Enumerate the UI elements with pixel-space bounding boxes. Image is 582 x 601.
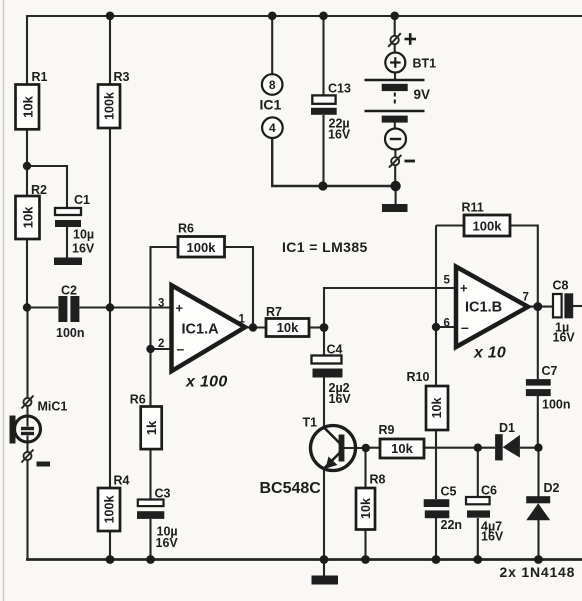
svg-text:x 100: x 100 (185, 374, 228, 391)
wire node A to C1 (27, 166, 67, 208)
svg-text:16V: 16V (328, 128, 351, 142)
resistor R11 (464, 215, 510, 236)
junction C2 node left (23, 303, 31, 311)
wire R9 node to R9 (366, 447, 380, 449)
wire R10 to C5 crossing R9 line (435, 430, 437, 499)
wire IC1 pin8 drop from rail (271, 16, 273, 75)
svg-text:–: – (177, 341, 185, 357)
svg-text:IC1: IC1 (260, 97, 282, 113)
wire ground stub below rail (323, 559, 325, 576)
svg-text:BT1: BT1 (413, 57, 437, 71)
wire C6 to bottom rail (477, 518, 479, 559)
junction bottom rail / R4 (106, 555, 115, 564)
capacitor C8 electrolytic (553, 294, 562, 317)
diode D1 (495, 434, 503, 460)
wire C2 node to C2 (27, 306, 58, 308)
svg-text:R4: R4 (114, 474, 130, 488)
svg-text:10µ: 10µ (73, 228, 94, 242)
capacitor C7 (526, 379, 551, 386)
ground bar below battery (382, 204, 408, 212)
wire C4 to T1 collector (323, 378, 325, 428)
IC1 power pin 4 circle (262, 117, 283, 138)
svg-text:C2: C2 (61, 284, 77, 298)
wire R2 top (26, 166, 28, 196)
svg-text:IC1 = LM385: IC1 = LM385 (282, 239, 368, 255)
wire R3 drop from rail (109, 16, 111, 85)
svg-text:16V: 16V (72, 242, 95, 256)
svg-text:8: 8 (269, 78, 276, 92)
wire IC1.A output to R7 (245, 326, 266, 328)
wire battery drop from rail (394, 16, 396, 36)
wire C2 node to MIC1 (26, 308, 28, 399)
svg-text:IC1.B: IC1.B (465, 300, 502, 316)
junction top rail / IC1 pin8 (268, 12, 277, 21)
svg-text:9V: 9V (414, 87, 431, 102)
svg-text:R2: R2 (31, 183, 47, 197)
svg-text:16V: 16V (553, 331, 576, 345)
svg-text:R3: R3 (114, 70, 130, 84)
wire battery connector to power return node (394, 166, 396, 187)
wire C4 node down to C4 (323, 328, 325, 356)
wire battery bottom plate to minus circle (394, 123, 396, 129)
junction D1 / C6 (474, 444, 482, 452)
ground bar below T1 emitter (312, 576, 339, 585)
wire D1 cathode side to output column (520, 447, 539, 449)
svg-text:+: + (176, 301, 184, 316)
svg-text:R8: R8 (370, 473, 386, 487)
capacitor C13 electrolytic (312, 95, 335, 103)
wire C8 to edge (573, 305, 582, 307)
junction power return / battery (390, 181, 400, 191)
wire C7 to D1 node (537, 396, 539, 448)
svg-text:R6: R6 (130, 393, 146, 407)
svg-text:1k: 1k (144, 420, 159, 435)
svg-text:MiC1: MiC1 (38, 400, 68, 414)
wire R2 bottom to C2 node (26, 239, 28, 308)
svg-text:2: 2 (158, 338, 164, 350)
junction T1 base / R8 / R9 (362, 444, 370, 452)
transistor Q T1 BC548C (311, 426, 356, 471)
svg-text:+: + (460, 281, 468, 296)
svg-text:–: – (461, 319, 469, 335)
wire R11 top left (436, 224, 464, 226)
wire output node down to C7 (537, 307, 539, 379)
resistor R1 (16, 85, 40, 130)
junction bottom rail / C3 (146, 555, 155, 564)
wire C2 junction down to R4 (109, 308, 111, 488)
battery BT1 plus connector (390, 36, 398, 44)
junction power return / C13 (318, 181, 327, 190)
junction IC1.A pin2 feedback (146, 345, 154, 353)
junction IC1.B pin6 / R10 / R11 (432, 323, 440, 331)
wire pin6 node down to R10 (435, 327, 437, 386)
junction top rail / C13 (319, 12, 328, 21)
wire R1 to node A (26, 129, 28, 166)
wire feedback left leg R6 100k (151, 247, 179, 349)
battery BT1 top long plate (365, 79, 425, 82)
svg-text:1: 1 (239, 314, 246, 326)
label battery minus (405, 160, 416, 163)
junction bottom rail / C5 (432, 555, 441, 564)
resistor R6 100k feedback (178, 237, 225, 258)
svg-text:R10: R10 (407, 370, 430, 384)
svg-text:C4: C4 (327, 343, 343, 357)
svg-text:4: 4 (269, 121, 276, 135)
wire R11 right leg to output node (510, 226, 538, 307)
svg-text:3: 3 (158, 298, 164, 310)
svg-text:C13: C13 (328, 82, 351, 96)
svg-text:R6: R6 (178, 222, 194, 236)
battery BT1 plus terminal circle (385, 53, 405, 73)
svg-text:D1: D1 (499, 421, 515, 435)
wire C4 node riser to IC1.B pin 5 (324, 288, 456, 328)
wire T1 base to R9 node (344, 447, 366, 449)
svg-text:10k: 10k (21, 206, 36, 228)
IC1 power pin 8 circle (262, 74, 283, 95)
diode D2 (526, 496, 550, 503)
ground bar below C1 (54, 258, 82, 266)
wire left chain drop from top rail (26, 15, 28, 85)
svg-text:7: 7 (523, 292, 529, 304)
svg-text:10k: 10k (391, 441, 413, 456)
wire minus circle to connector (394, 150, 396, 158)
svg-text:C8: C8 (553, 279, 569, 293)
svg-text:10k: 10k (359, 498, 373, 519)
wire pin2 node down to R6 1k (149, 349, 151, 407)
junction top rail / battery (390, 12, 399, 21)
svg-text:100n: 100n (542, 398, 571, 412)
svg-text:R11: R11 (462, 201, 484, 215)
wire bottom ground rail (26, 558, 582, 561)
junction C2 / R3 column (106, 303, 114, 311)
wire IC1.B pin 6 (436, 326, 456, 328)
wire MIC1 connector to body (26, 406, 28, 417)
wire D2 to bottom rail (537, 520, 539, 559)
wire BT1 plus circle to plate (394, 73, 396, 80)
battery BT1 bottom long plate (365, 110, 425, 113)
wire battery internal top (394, 45, 396, 53)
svg-text:R7: R7 (266, 305, 282, 319)
svg-text:6: 6 (444, 318, 450, 330)
wire IC1.A pin 2 (151, 348, 172, 350)
svg-text:10k: 10k (277, 320, 299, 335)
resistor R6 1k (141, 407, 162, 450)
svg-text:2x 1N4148: 2x 1N4148 (500, 564, 576, 580)
svg-text:BC548C: BC548C (260, 480, 322, 497)
label battery plus (405, 33, 417, 45)
wire R8 top (364, 448, 366, 488)
capacitor C3 electrolytic (138, 500, 164, 507)
svg-text:16V: 16V (481, 530, 504, 544)
wire R7 to C4 node (309, 326, 324, 328)
capacitor C5 (424, 499, 450, 507)
svg-text:100k: 100k (187, 240, 217, 255)
mini ground mark at MIC1 (37, 462, 51, 467)
svg-text:D2: D2 (544, 481, 560, 495)
svg-text:22n: 22n (441, 518, 463, 532)
wire R3 to C2 junction (109, 129, 111, 309)
wire R4 to bottom rail (109, 531, 111, 559)
junction D1 / C7 / D2 (534, 444, 542, 452)
junction node A R1/R2/C1 (23, 162, 31, 170)
svg-text:R9: R9 (379, 423, 395, 437)
resistor R2 (16, 196, 40, 239)
resistor R3 (98, 85, 120, 129)
wire MIC1 to bottom rail (26, 460, 28, 559)
battery BT1 bottom thick plate (382, 116, 408, 123)
op-amp U IC1.A (172, 285, 246, 371)
resistor R8 (356, 488, 375, 530)
svg-text:5: 5 (444, 275, 451, 287)
svg-text:16V: 16V (329, 392, 352, 406)
battery BT1 dashed middle (394, 93, 396, 107)
microphone MIC1 body (10, 416, 16, 444)
junction IC1.A output (249, 323, 257, 331)
capacitor C6 electrolytic (466, 497, 490, 504)
wire MIC1 body to lower connector (26, 442, 28, 452)
battery BT1 minus connector (391, 157, 399, 165)
svg-text:C5: C5 (441, 485, 457, 499)
wire feedback right leg R6 100k to output (225, 247, 254, 328)
microphone MIC1 top connector (24, 398, 32, 406)
svg-text:100k: 100k (103, 92, 117, 120)
svg-text:100k: 100k (103, 496, 117, 524)
battery BT1 minus terminal circle (385, 129, 406, 150)
wire C5 to bottom rail (435, 518, 437, 559)
resistor R9 (380, 439, 424, 458)
wire C1 to ground bar (66, 227, 68, 258)
microphone MIC1 bottom connector (24, 452, 32, 460)
wire R6 1k to C3 (149, 449, 151, 500)
wire R8 to bottom rail (364, 530, 366, 560)
svg-text:100k: 100k (473, 219, 503, 234)
wire top supply rail (27, 15, 582, 17)
resistor R7 (266, 319, 309, 337)
capacitor C1 electrolytic (55, 208, 81, 215)
wire R9 to D1 (424, 447, 495, 449)
svg-text:10k: 10k (430, 398, 444, 419)
svg-text:IC1.A: IC1.A (182, 322, 220, 338)
capacitor C4 electrolytic (312, 356, 342, 364)
battery BT1 top thick plate (382, 84, 408, 91)
junction top rail / R3 (106, 12, 115, 21)
wire IC1.B output to C8 (528, 306, 553, 308)
junction R7 / C4 / pin5 riser (320, 323, 329, 332)
scan edge artifact (3, 0, 5, 601)
svg-text:T1: T1 (303, 416, 318, 430)
svg-text:R1: R1 (32, 70, 48, 84)
wire C3 to bottom rail (149, 519, 151, 559)
svg-text:x 10: x 10 (473, 345, 506, 362)
wire R11 left leg (435, 226, 437, 328)
op-amp U IC1.B (456, 267, 528, 347)
svg-text:100n: 100n (56, 326, 85, 340)
junction bottom rail / T1 emitter (320, 555, 329, 564)
capacitor C2 (58, 296, 67, 322)
svg-text:C7: C7 (542, 364, 558, 378)
svg-text:C6: C6 (481, 484, 497, 498)
wire D1 node down to D2 (537, 448, 539, 497)
wire ground stub below battery (395, 186, 397, 204)
svg-text:10k: 10k (21, 95, 36, 117)
svg-text:16V: 16V (156, 536, 179, 550)
resistor R10 (426, 386, 448, 430)
svg-text:C1: C1 (74, 193, 90, 207)
svg-text:C3: C3 (155, 487, 171, 501)
wire C13 drop from rail (322, 16, 324, 96)
wire T1 emitter to bottom rail (323, 469, 325, 560)
wire D1 node down to C6 (477, 448, 479, 497)
wire C13 to power return (322, 115, 324, 186)
junction bottom rail / D2 (534, 555, 543, 564)
wire IC1 pin4 to power return (272, 138, 395, 186)
junction IC1.B output node (533, 302, 542, 311)
junction bottom rail / C6 (473, 555, 482, 564)
resistor R4 (98, 488, 120, 531)
wire C2 to IC1.A pin 3 (80, 306, 172, 308)
junction bottom rail / R8 (361, 555, 370, 564)
